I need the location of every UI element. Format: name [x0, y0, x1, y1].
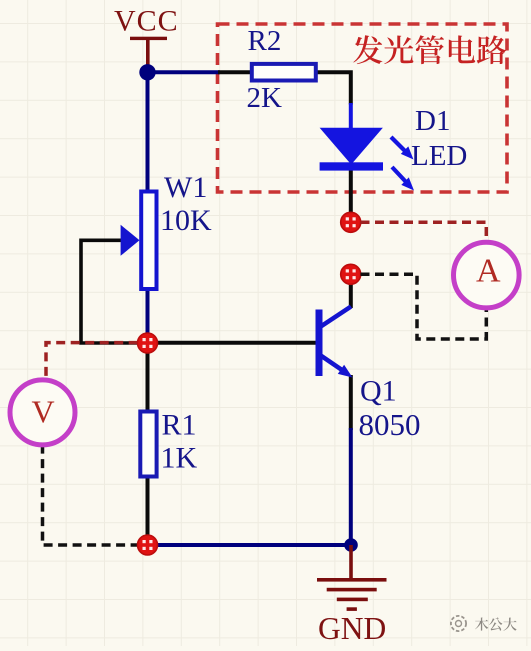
svg-text:10K: 10K — [160, 204, 212, 237]
transistor Q1 — [316, 307, 353, 378]
ammeter A — [454, 242, 520, 308]
voltmeter lead (red dashed) — [46, 343, 138, 381]
wire R1 bottom to emitter node (black) — [146, 478, 150, 545]
wire W1 bottom to base node (navy) — [146, 290, 150, 343]
junction GND node — [344, 538, 358, 552]
wire collector pin (black) — [349, 283, 353, 308]
wire base node to R1 top (black) — [146, 343, 150, 410]
svg-text:VCC: VCC — [114, 5, 179, 38]
node: LED cathode test point (to ammeter +) — [341, 212, 361, 232]
svg-text:2K: 2K — [247, 82, 283, 114]
watermark 木公大 — [451, 616, 466, 631]
svg-text:R2: R2 — [248, 25, 282, 57]
wiper wire W1 to base node (black) — [81, 240, 148, 343]
resistor R1 — [140, 412, 156, 477]
svg-text:D1: D1 — [415, 105, 450, 137]
junction: base node test point (to voltmeter +) — [138, 333, 158, 353]
LED D1 — [320, 103, 414, 191]
junction VCC node — [139, 64, 155, 80]
watermark text — [475, 617, 517, 630]
ammeter lead (red dashed) — [361, 222, 487, 242]
svg-text:GND: GND — [318, 611, 386, 646]
ground — [317, 545, 387, 611]
wire R2 right to corner and down to LED (black) — [318, 72, 351, 104]
svg-text:LED: LED — [411, 140, 467, 172]
label 发光管电路 (LED circuit) — [353, 35, 506, 64]
wire into box to R2 left (black) — [218, 70, 251, 74]
voltmeter lead (black dashed) — [43, 445, 138, 545]
ammeter lead (black dashed) — [361, 274, 487, 339]
annotation box: LED circuit (dashed) — [218, 24, 508, 192]
potentiometer W1 — [121, 192, 157, 290]
junction: emitter node test point (to voltmeter -) — [138, 535, 158, 555]
node: Q1 collector test point (to ammeter -) — [341, 264, 361, 284]
svg-text:Q1: Q1 — [360, 375, 397, 408]
svg-text:R1: R1 — [162, 409, 197, 442]
svg-text:W1: W1 — [164, 171, 207, 204]
resistor R2 — [252, 64, 316, 81]
wire emitter pin down (black) — [349, 375, 353, 430]
svg-text:8050: 8050 — [359, 407, 421, 442]
wire VCC node to R2 (navy) — [148, 70, 221, 74]
wire left rail VCC node to W1 top (navy) — [146, 70, 150, 191]
voltmeter V — [10, 380, 75, 445]
wire emitter to GND junction (navy) — [349, 428, 353, 545]
svg-text:V: V — [32, 393, 55, 429]
wire base node to Q1 base (black) — [148, 341, 317, 345]
wire bottom rail to GND junction (navy) — [148, 543, 352, 547]
svg-text:A: A — [476, 253, 501, 290]
wire LED cathode to test point (black) — [349, 169, 353, 214]
power symbol VCC — [130, 37, 167, 68]
svg-text:1K: 1K — [161, 442, 198, 475]
